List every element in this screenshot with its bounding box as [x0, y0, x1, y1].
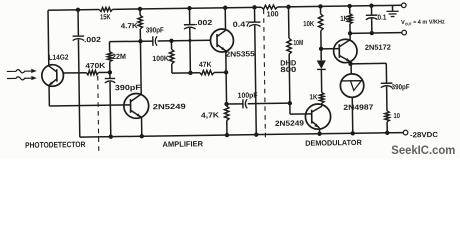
svg-text:PHOTODETECTOR: PHOTODETECTOR: [25, 140, 86, 150]
svg-text:SeekIC.com: SeekIC.com: [391, 143, 455, 157]
svg-text:AMPLIFIER: AMPLIFIER: [162, 139, 203, 149]
svg-text:100K: 100K: [152, 54, 169, 63]
svg-text:10K: 10K: [303, 19, 315, 28]
svg-text:1K: 1K: [309, 92, 318, 101]
svg-text:4.7K: 4.7K: [121, 21, 139, 30]
svg-text:.002: .002: [84, 35, 101, 44]
svg-text:L14G2: L14G2: [48, 53, 68, 62]
svg-text:390pF: 390pF: [115, 83, 142, 92]
svg-text:2N5249: 2N5249: [153, 102, 186, 111]
svg-text:.002: .002: [195, 18, 212, 27]
svg-text:2N5249: 2N5249: [275, 118, 304, 127]
svg-text:10: 10: [393, 111, 400, 120]
svg-text:0.47: 0.47: [233, 20, 251, 29]
svg-text:2N4987: 2N4987: [343, 103, 373, 112]
svg-text:390pF: 390pF: [392, 82, 411, 91]
svg-text:DEMODULATOR: DEMODULATOR: [305, 138, 362, 148]
svg-text:22M: 22M: [112, 52, 126, 61]
svg-text:0.1: 0.1: [377, 13, 386, 22]
svg-text:390pF: 390pF: [146, 25, 165, 34]
svg-text:10M: 10M: [293, 38, 303, 47]
svg-text:800: 800: [280, 65, 296, 74]
svg-text:15K: 15K: [100, 12, 111, 21]
svg-text:2N5355: 2N5355: [226, 49, 255, 58]
svg-text:≈ 4 m V/KHz: ≈ 4 m V/KHz: [413, 19, 445, 25]
svg-text:2N5172: 2N5172: [365, 43, 391, 52]
svg-text:-28VDC: -28VDC: [410, 130, 439, 139]
svg-text:47K: 47K: [199, 60, 212, 69]
svg-text:1K: 1K: [340, 14, 349, 23]
svg-text:OUT: OUT: [405, 21, 412, 26]
svg-text:4,7K: 4,7K: [201, 110, 220, 119]
svg-text:100: 100: [267, 9, 279, 18]
svg-text:470K: 470K: [85, 61, 106, 70]
